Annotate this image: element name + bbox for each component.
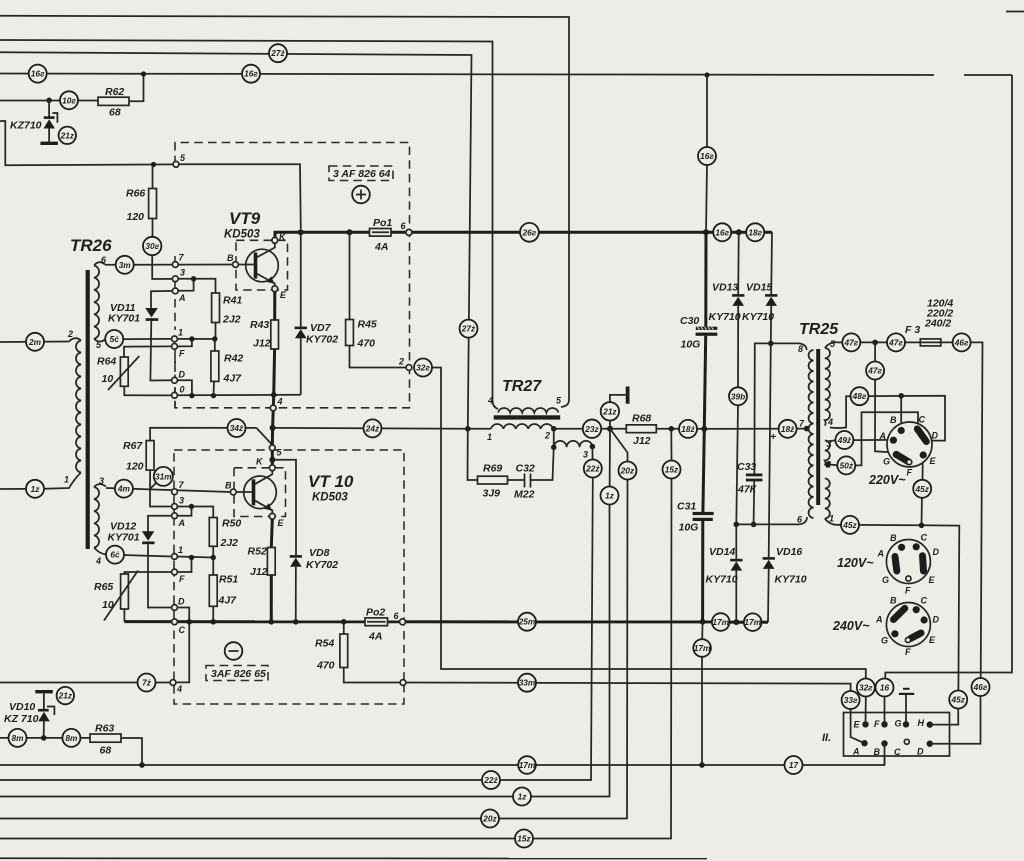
svg-text:1: 1: [829, 514, 834, 524]
wire lug B down to 17 line: [884, 744, 886, 766]
svg-text:470: 470: [316, 660, 335, 672]
svg-text:3: 3: [99, 476, 104, 486]
wire rail T3 to node 27z vertical: [0, 52, 472, 428]
svg-text:46г: 46г: [973, 682, 988, 692]
collector bus 26g thick: [275, 232, 772, 237]
svg-text:2J2: 2J2: [222, 314, 241, 326]
pin 4 VT10: [170, 680, 176, 686]
svg-text:II.: II.: [822, 732, 831, 744]
ground symbol at connector: [899, 688, 914, 725]
wire V707 upper: [706, 75, 708, 147]
node 20z L4: [481, 810, 499, 828]
wire net 24z: [273, 427, 468, 430]
svg-text:F: F: [907, 468, 913, 478]
resistor R54: [315, 622, 400, 683]
svg-text:R41: R41: [223, 295, 242, 307]
svg-text:F: F: [179, 574, 185, 584]
svg-text:R42: R42: [224, 353, 243, 365]
svg-text:KD503: KD503: [224, 229, 260, 241]
svg-text:R45: R45: [358, 319, 377, 331]
svg-text:M22: M22: [514, 489, 535, 501]
svg-text:45z: 45z: [951, 695, 966, 705]
junction bus/V707: [703, 229, 709, 235]
transformer TR27: [487, 378, 592, 460]
junction bus/VD13: [736, 229, 742, 235]
svg-text:3J9: 3J9: [483, 488, 501, 500]
svg-text:8: 8: [798, 344, 803, 354]
svg-text:VD16: VD16: [776, 546, 802, 558]
wire rail T2 to TR27 pin 4: [0, 40, 498, 409]
wire bottom border line: [0, 857, 707, 859]
svg-text:8m: 8m: [12, 733, 25, 743]
transistor VT10: [234, 468, 354, 517]
node 21z lower: [57, 687, 74, 704]
svg-text:KZ710: KZ710: [10, 120, 42, 132]
wire node 3 to R41 and pin A: [178, 279, 216, 293]
svg-text:R52: R52: [248, 546, 267, 558]
node 27z: [269, 44, 287, 62]
svg-text:C: C: [921, 596, 928, 606]
svg-text:16г: 16г: [700, 151, 714, 161]
svg-text:10G: 10G: [679, 522, 699, 534]
resistor R67: [146, 441, 154, 471]
diode VD12: [108, 516, 172, 608]
svg-text:D: D: [933, 615, 940, 625]
svg-text:A: A: [852, 747, 860, 757]
svg-text:B: B: [890, 596, 897, 606]
wire rail T4 left: [0, 74, 934, 76]
svg-text:30г: 30г: [145, 241, 159, 251]
wire right edge vertical 1012 down to H2: [885, 75, 1012, 679]
node 49z: [835, 431, 853, 449]
svg-text:10: 10: [102, 373, 114, 385]
svg-text:1z: 1z: [605, 491, 615, 501]
wire net 47g from TR25.5: [825, 342, 911, 348]
capacitor C30: [680, 232, 717, 429]
svg-text:22ż: 22ż: [483, 775, 498, 785]
wire R42 bottom lead: [213, 381, 216, 395]
svg-text:27ż: 27ż: [270, 48, 285, 58]
pin 2: [406, 365, 412, 371]
svg-text:45z: 45z: [915, 484, 930, 494]
svg-text:48г: 48г: [852, 391, 867, 401]
svg-text:F: F: [874, 719, 880, 729]
svg-text:B: B: [890, 533, 897, 543]
wire left jog to 5-line: [0, 121, 176, 165]
diode VD14: [706, 522, 743, 623]
wire 39b to VD14: [736, 405, 738, 524]
node 50z: [837, 456, 855, 474]
wire node 1 to R41/R42 junction and pin F: [177, 323, 215, 352]
svg-text:68: 68: [109, 107, 121, 119]
svg-text:1z: 1z: [31, 484, 41, 494]
fuse F3: [920, 339, 941, 346]
wire bus line L3 1z: [0, 505, 610, 797]
selector 240V: [832, 596, 940, 658]
wire R63 to L1: [121, 738, 142, 765]
node 18g: [746, 223, 764, 241]
svg-text:C31: C31: [677, 501, 696, 513]
svg-text:R54: R54: [315, 638, 334, 650]
node 21z tr27: [601, 402, 619, 420]
node 16g bus: [713, 223, 731, 241]
diode VD10: [4, 690, 54, 738]
svg-text:Po2: Po2: [366, 607, 385, 619]
svg-text:VT9: VT9: [229, 209, 261, 228]
svg-text:50ż: 50ż: [840, 460, 854, 470]
wire 18z line to TR25 pin7: [697, 428, 807, 430]
net circle 39b: [729, 387, 747, 405]
svg-text:2m: 2m: [28, 337, 42, 347]
svg-text:10: 10: [102, 599, 114, 611]
pin R54 out: [400, 680, 406, 686]
polarity circle minus: [225, 642, 243, 660]
svg-text:240/2: 240/2: [924, 318, 951, 330]
resistor R68: [626, 413, 680, 448]
node 10g: [60, 91, 78, 109]
svg-text:R63: R63: [95, 723, 114, 735]
svg-text:C30: C30: [680, 315, 699, 327]
svg-text:TR27: TR27: [502, 378, 542, 395]
svg-text:G: G: [883, 457, 890, 467]
pin D VT10: [172, 605, 178, 611]
svg-text:4: 4: [827, 417, 833, 427]
pin 6 VT10: [400, 619, 406, 625]
svg-text:24ż: 24ż: [365, 423, 380, 433]
pin 1: [172, 336, 178, 342]
pin B: [233, 262, 239, 268]
wire net 2m: [0, 341, 69, 344]
svg-text:16: 16: [880, 683, 890, 693]
svg-text:220V~: 220V~: [868, 473, 906, 487]
svg-text:4A: 4A: [374, 241, 388, 253]
node 17m b: [744, 613, 762, 631]
wire 5-line inside box to collector bus: [179, 164, 301, 229]
svg-text:47К: 47К: [737, 484, 758, 496]
svg-text:A: A: [879, 431, 887, 441]
pin E: [272, 286, 278, 292]
junction L1/R63: [139, 762, 145, 768]
svg-text:120V~: 120V~: [837, 556, 874, 570]
wire 45z branch to 220V lug E: [922, 457, 923, 526]
svg-text:KY702: KY702: [306, 334, 338, 346]
diode KZ710: [10, 100, 58, 145]
svg-text:B: B: [874, 747, 881, 757]
svg-text:4: 4: [176, 684, 182, 694]
svg-text:7ż: 7ż: [142, 678, 152, 688]
svg-text:C: C: [921, 533, 928, 543]
wire R43 to 0-line to pin 4 thick: [272, 349, 276, 397]
svg-text:2J2: 2J2: [220, 537, 239, 549]
junction TR25 pin 7: [804, 426, 810, 432]
pin E VT10: [269, 513, 275, 519]
svg-text:18г: 18г: [748, 227, 762, 237]
svg-text:R67: R67: [123, 440, 143, 452]
svg-text:4: 4: [487, 396, 493, 406]
node 4m: [115, 480, 133, 498]
svg-text:J12: J12: [250, 566, 268, 578]
node 16g mid: [698, 147, 716, 165]
bus Po2 line thick: [124, 620, 399, 623]
node 46g right: [972, 678, 990, 696]
wire net 50z TR25.2 to lug C: [826, 412, 918, 465]
wire 16 down to lug F: [884, 697, 886, 725]
diode VD13: [709, 232, 745, 387]
svg-text:E: E: [280, 290, 287, 300]
svg-text:KY710: KY710: [706, 574, 738, 586]
svg-text:VD14: VD14: [709, 546, 735, 558]
diode VD7: [295, 232, 339, 394]
svg-text:TR26: TR26: [70, 236, 112, 255]
node 25m: [518, 613, 536, 631]
svg-text:R51: R51: [219, 574, 238, 586]
resistor R45: [346, 232, 406, 367]
junction T4/V707: [704, 72, 709, 77]
pin 6: [406, 229, 412, 235]
node 30g: [143, 237, 161, 255]
pin A: [172, 288, 178, 294]
svg-text:J12: J12: [253, 338, 271, 350]
svg-text:1: 1: [487, 432, 492, 442]
svg-text:23z: 23z: [584, 424, 599, 434]
svg-text:4m: 4m: [117, 484, 131, 494]
transformer TR26: [44, 236, 112, 566]
wire 47g tap down to G: [875, 342, 894, 452]
svg-text:VD13: VD13: [712, 282, 738, 294]
wire bus line L5 15z: [0, 479, 672, 839]
svg-text:6ċ: 6ċ: [110, 550, 120, 560]
node 1z: [26, 480, 44, 498]
node 17m c: [693, 639, 711, 657]
transistor VT9: [224, 209, 288, 290]
wire net 33m: [406, 683, 851, 692]
pin 3 VT10: [172, 504, 178, 510]
pin 0: [172, 392, 178, 398]
node 23z: [583, 420, 601, 438]
junction 8m/VD10: [41, 735, 47, 741]
svg-text:KY702: KY702: [306, 559, 338, 571]
svg-text:KY701: KY701: [108, 532, 140, 544]
node 47g 3: [866, 362, 884, 380]
node 17: [785, 756, 803, 774]
svg-text:32г: 32г: [416, 363, 430, 373]
node 2m: [26, 333, 44, 351]
node 32g upper: [414, 359, 432, 377]
junction bus/R45: [347, 229, 353, 235]
svg-text:17: 17: [789, 760, 799, 770]
svg-text:A: A: [877, 549, 885, 559]
pin K VT10: [269, 465, 275, 471]
wire 33g to switch arm A: [851, 709, 865, 743]
svg-text:2: 2: [67, 329, 73, 339]
ground chassis 21z: [610, 387, 630, 429]
capacitor C33: [737, 343, 771, 524]
wire lug H to 45z: [930, 709, 959, 725]
junction R68/15z: [669, 426, 675, 432]
svg-text:VD8: VD8: [309, 547, 330, 559]
svg-text:R69: R69: [483, 463, 502, 475]
node 47g: [842, 333, 860, 351]
svg-text:C: C: [919, 415, 926, 425]
node 27z lower: [460, 320, 478, 338]
pin A VT10: [172, 513, 178, 519]
svg-text:16г: 16г: [31, 69, 45, 79]
trimmer R64: [97, 346, 172, 395]
svg-text:VD15: VD15: [746, 282, 772, 294]
wire main node line 23z: [554, 428, 627, 430]
svg-text:470: 470: [357, 338, 376, 350]
svg-text:R64: R64: [97, 356, 116, 368]
wire node1 VT10 to R50/R51 junction and pin F: [177, 546, 213, 575]
node 18z right: [779, 420, 797, 438]
wire 3m line TR26.6 to pin 7 and base B: [105, 264, 233, 266]
wire 30g to pin 3: [152, 255, 172, 279]
junction node VD15/TR25.8/C33: [768, 341, 774, 347]
svg-text:16г: 16г: [244, 69, 258, 79]
svg-text:49ż: 49ż: [837, 435, 852, 445]
svg-text:KY710: KY710: [709, 311, 741, 323]
wire VD14/C33 node to TR25 pin 6: [736, 517, 807, 524]
wire 6c line to pin 1 VT10: [106, 555, 172, 557]
capacitor C31: [677, 429, 714, 622]
svg-text:20z: 20z: [620, 466, 635, 476]
junction node 24z: [270, 425, 276, 431]
wire bus 16g vertical thick 165-232: [706, 165, 707, 232]
svg-text:4J7: 4J7: [223, 373, 243, 385]
svg-text:E: E: [929, 575, 936, 585]
wire 0-line: [177, 394, 300, 397]
svg-text:VD10: VD10: [9, 701, 35, 713]
node 16g: [242, 65, 260, 83]
node 1z L3: [513, 788, 531, 806]
svg-text:B: B: [890, 415, 897, 425]
resistor R50: [209, 518, 217, 547]
node 20z: [619, 462, 637, 480]
wire node3 to R50 and pin A VT10: [177, 507, 213, 518]
svg-text:120: 120: [126, 461, 144, 473]
junction bus/pin5-line: [298, 229, 304, 235]
node 22z L2: [482, 771, 500, 789]
svg-text:8m: 8m: [65, 733, 78, 743]
svg-text:KD503: KD503: [312, 492, 348, 504]
svg-text:R50: R50: [222, 518, 241, 530]
pin F: [172, 344, 178, 350]
svg-text:1: 1: [178, 545, 183, 555]
node 5c: [105, 330, 123, 348]
node 45z right: [949, 691, 967, 709]
wire 5c line TR26.5 to pin 1: [105, 338, 172, 340]
svg-text:3: 3: [180, 268, 185, 278]
svg-text:G: G: [895, 719, 902, 729]
svg-text:26г: 26г: [522, 227, 537, 237]
node 3m: [116, 256, 134, 274]
module box VT9 dashed: [175, 143, 410, 408]
svg-text:KY710: KY710: [775, 574, 807, 586]
svg-text:C33: C33: [737, 461, 756, 473]
svg-text:31m: 31m: [155, 471, 172, 481]
svg-text:G: G: [881, 636, 888, 646]
svg-text:33m: 33m: [519, 678, 536, 688]
node 45z 220V: [913, 480, 931, 498]
svg-text:A: A: [875, 615, 883, 625]
svg-text:22ż: 22ż: [585, 464, 600, 474]
svg-text:17m: 17m: [744, 617, 761, 627]
wire 15z chain top: [670, 429, 672, 461]
wire node to 1z chain: [609, 429, 612, 505]
svg-text:68: 68: [100, 745, 112, 757]
diode VD16: [763, 343, 807, 622]
svg-text:33г: 33г: [844, 695, 858, 705]
wire R52 to bus thick: [270, 575, 273, 622]
svg-text:3m: 3m: [119, 260, 132, 270]
pin B VT10: [230, 489, 236, 495]
node 33m: [518, 674, 536, 692]
pin 5 VT10: [269, 445, 275, 451]
leader to 31m: [150, 483, 156, 489]
junction T4/R62: [141, 71, 146, 76]
wire R62 to T4: [129, 74, 144, 101]
svg-text:J12: J12: [633, 435, 651, 447]
node 15z L5: [515, 830, 533, 848]
svg-text:27ż: 27ż: [461, 324, 476, 334]
svg-text:D: D: [917, 747, 924, 757]
selector 120V: [837, 533, 940, 596]
diode VD11: [108, 291, 175, 381]
pin F VT10: [172, 569, 178, 575]
svg-text:E: E: [930, 456, 937, 466]
junction main node: [607, 426, 613, 432]
svg-text:A: A: [178, 293, 186, 303]
wire E VT10 to R52 thick: [271, 519, 272, 547]
svg-text:4: 4: [95, 556, 101, 566]
wire net 34z to R67 corner: [150, 428, 256, 441]
wire bus line L2 22z: [0, 478, 593, 781]
node 34z: [228, 419, 246, 437]
svg-text:17m: 17m: [519, 760, 536, 770]
wire lug D to 46g: [930, 696, 981, 744]
wire diagonal 34z line to VT10 pin 5: [256, 428, 272, 445]
svg-text:47г: 47г: [843, 337, 858, 347]
svg-text:H: H: [918, 718, 925, 728]
wire net 49z TR25.3 to lug A: [826, 440, 891, 442]
resistor R41: [212, 293, 220, 323]
transformer TR25: [797, 321, 839, 525]
wire 4m line to pin 7 and base: [106, 488, 231, 492]
resistor R62: [98, 97, 129, 105]
svg-text:Po1: Po1: [373, 217, 392, 229]
wire rail T1 to TR27 pin 5: [0, 16, 569, 407]
svg-text:47г: 47г: [888, 337, 903, 347]
wire rail T4 right: [964, 74, 1012, 76]
wire pin5 to K with VD8 tap thick: [271, 451, 274, 465]
svg-text:R65: R65: [94, 581, 113, 593]
svg-text:45z: 45z: [842, 520, 857, 530]
svg-text:17m: 17m: [712, 617, 729, 627]
svg-text:E: E: [854, 720, 861, 730]
svg-text:F: F: [179, 349, 185, 359]
svg-text:F: F: [905, 647, 911, 657]
node 8m: [62, 729, 80, 747]
svg-text:4A: 4A: [368, 631, 382, 643]
svg-text:10G: 10G: [681, 339, 701, 351]
svg-text:1z: 1z: [518, 792, 528, 802]
wire tertiary to 22z chain: [591, 447, 593, 478]
pin C VT10: [172, 619, 178, 625]
svg-text:240V~: 240V~: [832, 619, 870, 633]
node 22z: [584, 460, 602, 478]
node 32g conn: [857, 679, 875, 697]
svg-text:39b: 39b: [731, 391, 745, 401]
